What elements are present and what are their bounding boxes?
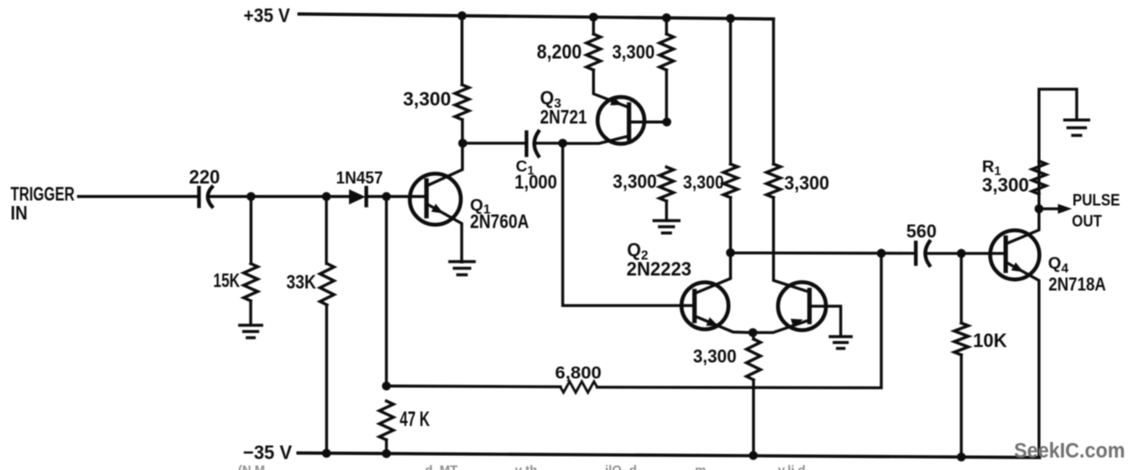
junction 33K node [322, 192, 331, 201]
wire 3300 to Q3 base node [665, 70, 668, 122]
wire 3300 to ground [665, 201, 668, 221]
wire 33K top [325, 197, 328, 264]
transistor Q4 base bar [1004, 238, 1008, 271]
ground top right [1065, 119, 1089, 122]
transistor Q4 emitter arrow [1011, 262, 1023, 272]
svg-text:2N721: 2N721 [540, 108, 587, 129]
resistor 6,800 [560, 382, 597, 393]
svg-text:m,: m, [695, 464, 710, 470]
resistor 47K [379, 401, 393, 440]
junction 47K bottom rail [382, 449, 391, 458]
transistor Q2 left circle [682, 282, 729, 329]
transistor Q2 right emitter lead [753, 320, 810, 333]
resistor 33K [320, 264, 334, 305]
junction Q3 base node [662, 118, 671, 127]
junction pulse out node [1035, 204, 1044, 213]
svg-text:10K: 10K [973, 330, 1007, 352]
wire 15K to ground [249, 301, 252, 325]
cropped caption fragments [238, 464, 806, 470]
wire 8200 to Q3 collector [594, 70, 630, 108]
wire 3300 to Q2 right collector [774, 198, 810, 293]
junction 10K bottom rail [957, 453, 966, 462]
transistor Q3 base lead [629, 121, 667, 124]
transistor Q2 right base bar [807, 290, 811, 322]
wire 3300 to C1 node [461, 120, 464, 143]
svg-text:3,300: 3,300 [784, 173, 829, 195]
junction rail at Q1 collector resistor [458, 11, 467, 20]
svg-text:2N718A: 2N718A [1049, 274, 1107, 294]
svg-text:15K: 15K [213, 270, 240, 292]
wire cap to diode [211, 195, 352, 198]
wire emitters to 3300 [752, 333, 755, 339]
wire 560 to Q4 base [928, 252, 1006, 255]
wire 10K top [960, 253, 963, 323]
wire rail to 8200 [592, 17, 595, 34]
svg-text:8,200: 8,200 [537, 41, 582, 63]
svg-text:IN: IN [11, 204, 28, 225]
resistor 3,300 (Q3 emitter lower) [660, 167, 674, 201]
svg-text:3,300: 3,300 [693, 347, 737, 367]
transistor Q2 right base lead [810, 306, 841, 336]
wire Q1 base node down to 47K node [385, 197, 388, 387]
capacitor C1 1,000 [525, 132, 529, 155]
svg-text:33K: 33K [286, 272, 316, 294]
resistor 3,300 (Q3 base upper) [660, 34, 674, 70]
junction Q2 emitters node [748, 328, 757, 337]
wire mid node to Q2 left collector [695, 253, 731, 294]
svg-text:SeekIC.com: SeekIC.com [1014, 439, 1125, 463]
ground at Q2 right base [830, 335, 851, 338]
junction 47K top node [382, 382, 391, 391]
wire C1 node to Q2 base [563, 143, 695, 305]
svg-text:−35 V: −35 V [243, 442, 292, 464]
junction 33K bottom rail [322, 449, 331, 458]
svg-text:47 K: 47 K [400, 408, 430, 431]
ground under 15K [240, 324, 262, 327]
resistor 3,300 (Q1 collector) [455, 85, 469, 120]
svg-text:3,300: 3,300 [612, 41, 655, 63]
transistor Q2 right circle [778, 282, 826, 330]
wire 6800 left segment [386, 385, 560, 389]
transistor Q3 circle [598, 97, 645, 144]
wire C1 left [463, 142, 525, 145]
wire mid horizontal (collector to 560 cap) [731, 251, 915, 254]
transistor Q1 collector lead [427, 143, 463, 186]
junction C1 right node [558, 139, 567, 148]
svg-text:TRIGGER: TRIGGER [11, 185, 75, 206]
transistor Q2 left emitter arrow [706, 317, 718, 326]
svg-text:3,300: 3,300 [403, 90, 451, 111]
resistor 10K [954, 323, 968, 355]
wire 6800 right segment [597, 253, 881, 387]
junction Q1 base node [382, 192, 391, 201]
junction rail at 8200 [589, 13, 598, 22]
junction rail at 3300 (Q2 left collector) [726, 14, 735, 23]
capacitor 560 [914, 243, 918, 265]
wire trigger input [79, 195, 198, 198]
wire R1 top to ground arm [1038, 161, 1041, 194]
resistor 3,300 (Q2 emitter) [747, 339, 761, 380]
wire -35V bottom rail [298, 453, 1040, 458]
wire 15K top [250, 197, 253, 264]
diode 1N457 [349, 189, 366, 204]
svg-text:(N.M.: (N.M. [238, 464, 269, 470]
wire +35V top rail [299, 14, 774, 19]
svg-text:+35 V: +35 V [244, 5, 291, 27]
transistor Q4 circle [990, 230, 1039, 279]
wire rail corner to 3300 (Q2 right collector) [772, 19, 775, 164]
junction 10K top node [957, 249, 966, 258]
svg-text:560: 560 [906, 220, 936, 241]
svg-text:220: 220 [189, 167, 220, 189]
junction bottom rail at Q2 emitter resistor [749, 451, 758, 460]
wire 3300 to bottom rail [752, 380, 755, 456]
svg-text:v th,: v th, [515, 464, 541, 470]
wire diode to Q1 base [366, 195, 426, 198]
wire 3300 to mid node [729, 198, 732, 253]
wire rail to 3300 [729, 18, 732, 164]
svg-text:1,000: 1,000 [515, 172, 558, 194]
transistor Q1 emitter arrow [431, 204, 443, 214]
svg-text:d, MT: d, MT [425, 464, 458, 470]
junction Q2 collector mid node [726, 248, 735, 257]
svg-text:3,300: 3,300 [613, 171, 657, 193]
ground under Q3 resistor [654, 219, 679, 222]
wire C1 right [536, 142, 563, 145]
svg-text:PULSE: PULSE [1073, 192, 1121, 210]
svg-text:3,300: 3,300 [982, 175, 1029, 197]
svg-text:2N760A: 2N760A [470, 212, 529, 233]
transistor Q1 circle [410, 174, 461, 225]
wire R1 bottom lead [1038, 194, 1041, 209]
svg-text:OUT: OUT [1072, 212, 1103, 231]
transistor Q3 base bar [627, 105, 631, 139]
junction mid node at 881 [877, 249, 886, 258]
transistor Q1 emitter lead [427, 204, 462, 262]
svg-text:1N457: 1N457 [336, 168, 383, 188]
wire 47K to bottom rail [385, 440, 388, 454]
resistor 15K [244, 264, 258, 301]
resistor 3,300 (Q2 right collector) [767, 164, 781, 198]
wire 10K to bottom rail [960, 355, 963, 457]
pulse out arrow [1039, 207, 1060, 210]
junction C1 left node [458, 139, 467, 148]
svg-text:2N2223: 2N2223 [627, 260, 692, 281]
svg-text:3,300: 3,300 [683, 172, 724, 193]
svg-text:6,800: 6,800 [555, 362, 602, 382]
junction input node [247, 192, 256, 201]
wire R1 to top ground [1039, 89, 1077, 161]
junction rail at 3300 (Q3 base) [662, 13, 671, 22]
svg-text:v,lj,d: v,lj,d [778, 464, 806, 470]
ground under Q1 emitter [450, 260, 475, 263]
wire rail to 3300 top [665, 18, 668, 34]
transistor Q2 left emitter lead [695, 316, 753, 333]
transistor Q4 emitter lead [1006, 262, 1039, 458]
resistor 3,300 (Q2 left collector) [724, 164, 738, 198]
wire 33K to bottom rail [325, 305, 328, 454]
transistor Q1 base bar [424, 180, 428, 216]
capacitor 220 (input) [197, 188, 201, 207]
transistor Q2 left base bar [692, 291, 696, 321]
resistor 8,200 [587, 34, 601, 70]
transistor Q4 collector lead [1006, 209, 1039, 244]
resistor R1 3,300 [1032, 161, 1046, 194]
svg-text:jlO-,d: jlO-,d [604, 464, 637, 470]
transistor Q3 collector arrow [610, 97, 622, 106]
transistor Q3 emitter lead [563, 136, 629, 143]
wire +35V to 3300 (Q1 collector) [461, 16, 464, 85]
transistor Q2 right emitter arrow [791, 319, 803, 328]
